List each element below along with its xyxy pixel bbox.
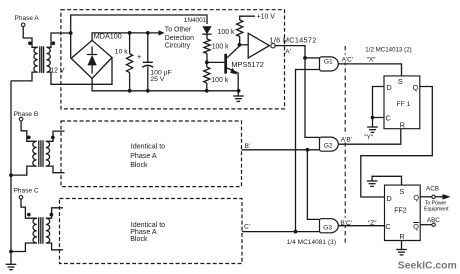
Phase C block (dashed box)	[60, 199, 243, 264]
transformer T3 primary winding	[27, 213, 37, 243]
wire A-prime to G2	[305, 58, 320, 137]
diode 1N4001	[184, 17, 212, 39]
resistor 100 k (load)	[218, 20, 243, 47]
wire neutral bus	[9, 81, 13, 264]
svg-text:G2: G2	[324, 142, 333, 149]
wire bridge + rail	[92, 31, 158, 40]
node Phase B input terminal	[14, 111, 39, 121]
wire X net G1 out to FF1 S	[338, 55, 401, 76]
svg-text:A': A'	[285, 48, 291, 55]
svg-text:1N4001: 1N4001	[184, 17, 207, 24]
svg-text:Q: Q	[413, 193, 419, 202]
svg-text:+: +	[137, 52, 141, 61]
svg-text:Block: Block	[130, 235, 148, 243]
inverter U1 1/6 MC14572	[248, 33, 316, 58]
wire FF2 S to ground	[372, 176, 401, 185]
svg-text:10 k: 10 k	[115, 49, 128, 56]
svg-text:S: S	[398, 77, 403, 86]
flip-flop FF2	[385, 185, 421, 241]
svg-text:R: R	[400, 120, 405, 129]
wire T1 secondary bottom to bridge right	[47, 58, 113, 85]
node ABC output	[420, 217, 440, 227]
transformer T1 secondary winding	[47, 41, 65, 74]
svg-text:C: C	[385, 222, 391, 231]
svg-text:Phase A: Phase A	[15, 15, 40, 22]
wire A-prime to G1	[305, 57, 320, 59]
wire B-prime output	[242, 143, 320, 152]
wire B-prime to G3	[307, 150, 319, 220]
svg-text:Block: Block	[130, 161, 148, 169]
wire Z net G3 out to FF2 C	[338, 218, 384, 227]
svg-text:MPS5172: MPS5172	[231, 60, 263, 69]
transformer T3 core	[39, 217, 43, 244]
wire C-prime to G1	[296, 70, 320, 232]
node ACB output	[420, 186, 450, 213]
bridge rectifier MDA100	[71, 32, 122, 79]
label 1/2 MC14013 (2)	[365, 46, 411, 53]
partition dashed line	[344, 46, 346, 244]
svg-text:A'B': A'B'	[341, 136, 352, 143]
wire FF1 Q to FF2 D	[361, 87, 433, 198]
label Identical to Phase A Block (B)	[130, 142, 165, 169]
svg-text:R: R	[399, 232, 404, 241]
svg-text:FF2: FF2	[394, 207, 407, 214]
svg-text:″Z″: ″Z″	[368, 220, 377, 227]
svg-text:B'C': B'C'	[340, 220, 352, 227]
transformer T1 primary winding	[28, 41, 38, 72]
Phase A detection block (dashed box)	[61, 10, 285, 109]
svg-text:To Other: To Other	[165, 26, 192, 33]
wire A-prime output	[275, 46, 307, 60]
resistor 100 k (pull-down)	[204, 62, 229, 90]
transformer T2 core	[39, 140, 43, 167]
svg-text:Circuitry: Circuitry	[165, 43, 191, 50]
wire T1 primary return	[11, 72, 38, 81]
ground neutral bus	[6, 264, 17, 269]
wire AC node to bridge left	[70, 33, 72, 58]
wire T3 secondary top	[46, 208, 63, 218]
AND gate G1	[320, 57, 339, 71]
AND gate G3	[320, 219, 339, 233]
svg-text:Identical to: Identical to	[131, 142, 165, 150]
resistor 10 k	[115, 33, 133, 91]
svg-text:100 k: 100 k	[211, 77, 228, 84]
ground MPS5172 emitter	[233, 96, 244, 101]
resistor 100 k (series)	[204, 39, 229, 64]
AND gate G2	[320, 137, 339, 151]
svg-text:D: D	[386, 194, 391, 203]
svg-text:Phase A: Phase A	[130, 152, 157, 160]
svg-text:Detection: Detection	[165, 35, 194, 42]
label 1/4 MC14081 (3)	[287, 239, 336, 246]
flip-flop FF1	[384, 76, 420, 129]
node Phase C input terminal	[14, 188, 39, 199]
wire T3 secondary bottom	[46, 243, 63, 250]
svg-text:C': C'	[244, 223, 250, 230]
svg-text:A'C': A'C'	[342, 56, 354, 63]
ground FF2 R	[396, 250, 407, 255]
wire Phase A terminal to T1 primary	[23, 27, 38, 48]
svg-text:+10 V: +10 V	[257, 13, 276, 20]
capacitor 100 uF 25 V	[137, 33, 172, 91]
transformer T2 primary winding	[27, 136, 37, 167]
svg-text:Phase B: Phase B	[14, 111, 39, 118]
wire C-prime output	[242, 223, 320, 233]
svg-text:SeekIC.com: SeekIC.com	[398, 260, 457, 271]
svg-text:100 k: 100 k	[218, 29, 235, 36]
wire collector node to inverter input	[240, 44, 249, 46]
svg-text:″X″: ″X″	[367, 56, 377, 63]
wire T3 primary return	[11, 243, 37, 252]
svg-text:ACB: ACB	[426, 186, 439, 193]
label Identical to Phase A Block (C)	[130, 221, 165, 243]
svg-text:Q: Q	[413, 83, 419, 92]
Phase B block (dashed box)	[61, 121, 242, 187]
wire Phase C terminal to T3 primary	[21, 199, 37, 218]
ground FF2 S	[367, 181, 378, 186]
svg-text:Equipment: Equipment	[424, 206, 449, 212]
wire Phase B terminal to T2 primary	[21, 121, 36, 141]
svg-text:G1: G1	[324, 59, 333, 66]
wire bridge - to ground rail	[92, 79, 240, 93]
svg-text:1/2 MC14013 (2): 1/2 MC14013 (2)	[365, 46, 411, 53]
svg-text:1/4 MC14081 (3): 1/4 MC14081 (3)	[287, 239, 336, 246]
transformer T3 secondary winding	[46, 213, 53, 243]
transformer T1 core	[40, 46, 44, 73]
wire T2 secondary bottom	[46, 166, 65, 173]
svg-text:B': B'	[245, 143, 251, 150]
transistor Q1 MPS5172	[224, 46, 264, 96]
wire top rail (AC) to 1N4001	[71, 15, 207, 33]
svg-text:″Y″: ″Y″	[364, 134, 374, 141]
watermark SeekIC.com	[398, 260, 457, 271]
wire FF2 R to ground	[401, 241, 403, 250]
svg-text:S: S	[399, 187, 404, 196]
wire T2 secondary top	[46, 131, 65, 141]
svg-text:25 V: 25 V	[150, 76, 164, 83]
svg-text:100 k: 100 k	[212, 43, 229, 50]
svg-text:D: D	[386, 83, 391, 92]
wire FF1 D and C to ground	[371, 87, 384, 128]
supply +10 V	[240, 13, 276, 20]
node Phase A input terminal	[15, 15, 40, 27]
wire Y net G2 out to FF1 R	[338, 129, 401, 145]
svg-text:Phase C: Phase C	[14, 188, 39, 195]
svg-text:1/6 MC14572: 1/6 MC14572	[270, 35, 317, 44]
arrow To Other Detection Circuitry	[159, 26, 195, 49]
svg-text:FF 1: FF 1	[397, 101, 411, 108]
wire base	[207, 61, 225, 63]
svg-text:12 V: 12 V	[50, 68, 65, 75]
svg-text:Q: Q	[413, 222, 419, 231]
svg-text:C: C	[386, 113, 392, 122]
ground FF1 D/C	[367, 127, 378, 132]
transformer T2 secondary winding	[46, 136, 55, 167]
wire T2 primary return	[11, 166, 37, 175]
svg-text:G3: G3	[323, 225, 332, 232]
wire T1 secondary top to AC node	[47, 31, 73, 47]
